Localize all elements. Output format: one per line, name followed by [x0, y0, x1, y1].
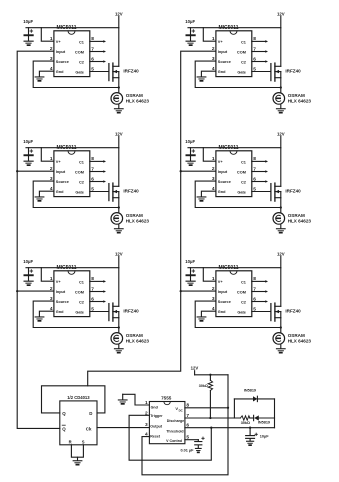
wire pin3 source loop (L2): [33, 181, 119, 207]
svg-text:COM: COM: [75, 51, 84, 55]
svg-text:12V: 12V: [115, 131, 123, 136]
ground lamp (R1): [276, 108, 286, 113]
wire pin3 source loop (R3): [195, 301, 281, 327]
svg-text:1: 1: [212, 36, 215, 42]
capacitor 0.01uF: [180, 437, 204, 452]
svg-text:Input: Input: [56, 50, 66, 54]
lamp OSRAM HLX 64623 (L3): [111, 333, 149, 345]
junction node source/pin3 (R1): [280, 86, 282, 88]
wire pin5 gate lead (R3): [252, 311, 271, 313]
ground pin4 (L2): [35, 196, 45, 201]
capacitor 10uF (timing): [245, 428, 269, 441]
svg-text:Q: Q: [62, 426, 66, 431]
wire Q to D feedback loop: [42, 386, 105, 413]
wire lamp to ground (R1): [280, 104, 282, 108]
wire pin4 to ground (R1): [201, 71, 216, 76]
wire pin1 drop from rail (L3): [41, 268, 54, 282]
wire lamp to ground (L3): [118, 344, 120, 348]
svg-text:Output: Output: [150, 425, 163, 429]
svg-text:12V: 12V: [277, 11, 285, 16]
wire pin1 drop from rail (R2): [203, 148, 216, 162]
svg-text:MIC5011: MIC5011: [56, 145, 76, 151]
ground lamp (L2): [114, 228, 124, 233]
wire diode2 to right riser: [259, 417, 275, 419]
svg-text:C1: C1: [79, 161, 85, 165]
ground pin4 (L1): [35, 76, 45, 81]
svg-text:C1: C1: [79, 281, 85, 285]
wire lamp to ground (R2): [280, 224, 282, 228]
wire pin5 gate lead (L1): [90, 71, 109, 73]
svg-text:COM: COM: [237, 291, 246, 295]
svg-text:V+: V+: [218, 160, 224, 164]
resistor 30k (Discharge to Threshold): [240, 416, 250, 425]
transistor IRFZ40 (L1): [109, 63, 139, 81]
junction node source/pin3 (R3): [280, 326, 282, 328]
svg-text:HLX 64623: HLX 64623: [126, 339, 150, 344]
svg-text:1: 1: [50, 156, 53, 162]
svg-text:12V: 12V: [277, 131, 285, 136]
wire source down to lamp (L3): [118, 318, 120, 333]
svg-text:COM: COM: [237, 51, 246, 55]
transistor IRFZ40 (L2): [109, 183, 139, 201]
svg-text:COM: COM: [237, 171, 246, 175]
wire pin3 source loop (L1): [33, 61, 119, 87]
wire pin1 drop from rail (R1): [203, 28, 216, 42]
junction node source/pin3 (L2): [118, 206, 120, 208]
svg-text:1: 1: [212, 156, 215, 162]
wire 7555 pin1 Gnd: [123, 394, 150, 405]
svg-text:Source: Source: [218, 300, 231, 304]
ground lamp (R2): [276, 228, 286, 233]
wire top diode branch right: [257, 398, 274, 400]
svg-text:12V: 12V: [115, 11, 123, 16]
IC MIC5011 (R1): [212, 25, 256, 76]
IC MIC5011 (R2): [212, 145, 256, 196]
wire source down to lamp (L1): [118, 78, 120, 93]
wires pins 8,7,6 stubs with arrows (R2): [252, 160, 268, 183]
wire right input bus (pins 2 of R1..R3 down to flip-flop feedback): [88, 51, 216, 386]
wire CK to 7555 output: [97, 427, 149, 429]
IC MIC5011 (L3): [50, 265, 94, 316]
wire drain to 12V rail (L1): [118, 28, 120, 67]
svg-text:R: R: [69, 440, 72, 445]
svg-text:V+: V+: [56, 280, 62, 284]
resistor 30k (VDD to Discharge): [199, 375, 213, 418]
svg-text:Gate: Gate: [237, 71, 246, 75]
svg-text:C2: C2: [241, 61, 246, 65]
wire L2 pin2 tap: [17, 170, 54, 172]
IC 1/2 CD4013 flip-flop: [60, 395, 97, 445]
svg-text:Reset: Reset: [150, 434, 161, 438]
wires pins 8,7,6 stubs with arrows (R1): [252, 40, 268, 63]
svg-text:C1: C1: [241, 281, 247, 285]
diode 1N5819 (bottom, pointing left): [254, 415, 270, 424]
wire L3 pin2 tap: [17, 290, 54, 292]
svg-text:MIC5011: MIC5011: [56, 265, 76, 271]
wires pins 8,7,6 stubs with arrows (L1): [90, 40, 106, 63]
transistor IRFZ40 (L3): [109, 303, 139, 321]
capacitor 10uF (R2): [185, 139, 196, 162]
svg-text:OSRAM: OSRAM: [126, 93, 143, 98]
power 12V label (L1): [115, 11, 123, 27]
svg-text:Gate: Gate: [237, 311, 246, 315]
ground 7555 pin1: [118, 399, 128, 404]
lamp OSRAM HLX 64623 (L2): [111, 213, 149, 225]
ground lamp (R3): [276, 348, 286, 353]
diode 1N5819 (top, pointing right): [244, 389, 258, 402]
IC 7555 timer: [145, 395, 189, 443]
svg-text:HLX 64623: HLX 64623: [126, 99, 150, 104]
ground timing cap: [246, 441, 254, 446]
lamp OSRAM HLX 64623 (R3): [273, 333, 311, 345]
lamp OSRAM HLX 64623 (R1): [273, 93, 311, 105]
IC MIC5011 (R3): [212, 265, 256, 316]
ground R,S of CD4013: [73, 460, 83, 465]
ground under capacitor (L1): [25, 43, 31, 46]
svg-text:10µF: 10µF: [260, 435, 269, 439]
power 12V label (R2): [277, 131, 285, 147]
svg-text:MIC5011: MIC5011: [218, 265, 238, 271]
svg-text:Source: Source: [56, 300, 69, 304]
svg-text:IRFZ40: IRFZ40: [123, 188, 139, 193]
svg-text:C2: C2: [79, 61, 84, 65]
svg-text:0.01 µF: 0.01 µF: [180, 449, 194, 453]
svg-text:Input: Input: [218, 290, 228, 294]
wire 7555 pin7 Discharge line: [185, 417, 241, 419]
ground under capacitor (L3): [25, 283, 31, 286]
svg-text:Source: Source: [56, 180, 69, 184]
capacitor 10uF (L1): [23, 19, 34, 42]
wire drain to 12V rail (L3): [118, 268, 120, 307]
power 12V label (R3): [277, 251, 285, 267]
wire pin1 drop from rail (R3): [203, 268, 216, 282]
wire resistor to diode2: [250, 417, 254, 419]
svg-text:Ck: Ck: [86, 426, 92, 431]
wire network right riser: [274, 399, 276, 428]
svg-text:OSRAM: OSRAM: [288, 213, 305, 218]
wires pins 8,7,6 stubs with arrows (R3): [252, 280, 268, 303]
ground lamp (L1): [114, 108, 124, 113]
wire drain to 12V rail (R3): [280, 268, 282, 307]
wire pin5 gate lead (L2): [90, 191, 109, 193]
wire pin5 gate lead (R2): [252, 191, 271, 193]
svg-text:Discharge: Discharge: [167, 419, 184, 423]
svg-text:Input: Input: [56, 290, 66, 294]
ground pin4 (R3): [197, 316, 207, 321]
svg-text:Input: Input: [56, 170, 66, 174]
svg-text:Gate: Gate: [237, 191, 246, 195]
svg-text:10µF: 10µF: [23, 19, 33, 24]
junction node source/pin3 (L3): [118, 326, 120, 328]
lamp OSRAM HLX 64623 (L1): [111, 93, 149, 105]
capacitor 10uF (L3): [23, 259, 34, 282]
svg-text:IRFZ40: IRFZ40: [285, 68, 301, 73]
svg-text:Input: Input: [218, 170, 228, 174]
junction node trigger/threshold: [210, 427, 212, 429]
svg-text:IRFZ40: IRFZ40: [123, 308, 139, 313]
svg-text:1/2 CD4013: 1/2 CD4013: [67, 395, 90, 400]
wire pin3 source loop (L3): [33, 301, 119, 327]
svg-text:MIC5011: MIC5011: [56, 25, 76, 31]
wire pin5 gate lead (R1): [252, 71, 271, 73]
svg-text:C2: C2: [79, 301, 84, 305]
wire pin1 drop from rail (L1): [41, 28, 54, 42]
svg-text:1: 1: [212, 276, 215, 282]
junction node right bus row2: [180, 170, 182, 172]
wire R3 pin2 tap: [181, 290, 216, 292]
transistor IRFZ40 (R1): [271, 63, 301, 81]
svg-text:C2: C2: [241, 181, 246, 185]
wire top diode branch left: [234, 398, 253, 400]
wire drain to 12V rail (L2): [118, 148, 120, 187]
svg-text:30kΩ: 30kΩ: [199, 384, 208, 388]
junction node 10uF cap tap: [249, 427, 251, 429]
svg-text:V+: V+: [56, 40, 62, 44]
svg-text:V+: V+: [218, 280, 224, 284]
ground pin4 (R1): [197, 76, 207, 81]
wire 12V top rail (R2): [188, 147, 281, 149]
wire 12V top rail (L3): [26, 267, 119, 269]
svg-text:12V: 12V: [191, 366, 199, 371]
wire pin4 to ground (L3): [39, 311, 54, 316]
junction node pin8/rail: [227, 407, 229, 409]
wire 12V top rail (L2): [26, 147, 119, 149]
svg-text:10µF: 10µF: [23, 139, 33, 144]
svg-text:IN5819: IN5819: [244, 389, 256, 393]
wire lamp to ground (L1): [118, 104, 120, 108]
svg-text:MIC5011: MIC5011: [218, 145, 238, 151]
svg-text:Gate: Gate: [75, 191, 84, 195]
wire 12V top rail (R1): [188, 27, 281, 29]
svg-text:12V: 12V: [115, 251, 123, 256]
svg-text:C2: C2: [241, 301, 246, 305]
svg-text:Gnd: Gnd: [218, 310, 226, 314]
junction node source/pin3 (L1): [118, 86, 120, 88]
svg-text:HLX 64623: HLX 64623: [288, 219, 312, 224]
svg-text:OSRAM: OSRAM: [288, 93, 305, 98]
svg-text:Source: Source: [218, 60, 231, 64]
wire 7555 pin6 Threshold line: [185, 427, 275, 429]
wire 12V top rail (R3): [188, 267, 281, 269]
svg-text:Gnd: Gnd: [56, 190, 64, 194]
svg-text:10µF: 10µF: [23, 259, 33, 264]
wire source down to lamp (L2): [118, 198, 120, 213]
svg-text:12V: 12V: [277, 251, 285, 256]
svg-text:V Control: V Control: [166, 439, 182, 443]
wire R,S to ground: [71, 445, 83, 457]
svg-text:IRFZ40: IRFZ40: [285, 308, 301, 313]
transistor IRFZ40 (R2): [271, 183, 301, 201]
capacitor 10uF (L2): [23, 139, 34, 162]
svg-text:Gnd: Gnd: [56, 310, 64, 314]
capacitor 10uF (R3): [185, 259, 196, 282]
wire pin5 gate lead (L3): [90, 311, 109, 313]
svg-text:D: D: [89, 411, 92, 416]
svg-text:Gnd: Gnd: [218, 70, 226, 74]
ground under capacitor (R3): [187, 283, 193, 286]
wire pin4 to ground (R3): [201, 311, 216, 316]
ground under capacitor (L2): [25, 163, 31, 166]
svg-text:V+: V+: [218, 40, 224, 44]
wire left input bus (pins 2 of L1..L3 to CD4013 Q-bar): [17, 51, 60, 428]
ground lamp (L3): [114, 348, 124, 353]
wire pin4 to ground (L2): [39, 191, 54, 196]
svg-text:10µF: 10µF: [185, 139, 195, 144]
transistor IRFZ40 (R3): [271, 303, 301, 321]
junction node resistor bottom on pin7 line: [209, 417, 211, 419]
wire 7555 pin5 V-control: [185, 439, 198, 441]
wire drain to 12V rail (R2): [280, 148, 282, 187]
svg-text:1: 1: [50, 276, 53, 282]
wire pin4 to ground (R2): [201, 191, 216, 196]
IC MIC5011 (L2): [50, 145, 94, 196]
svg-text:10µF: 10µF: [185, 19, 195, 24]
junction node right bus row3: [180, 290, 182, 292]
ground under capacitor (R2): [187, 163, 193, 166]
wire 7555 pin4 Reset to 12V: [142, 375, 228, 475]
wire pin3 source loop (R1): [195, 61, 281, 87]
wire pin4 to ground (L1): [39, 71, 54, 76]
svg-text:Q: Q: [62, 411, 66, 416]
wire drain to 12V rail (R1): [280, 28, 282, 67]
svg-text:Input: Input: [218, 50, 228, 54]
svg-text:HLX 64623: HLX 64623: [288, 99, 312, 104]
wire R2 pin2 tap: [181, 170, 216, 172]
svg-text:Threshold: Threshold: [166, 429, 183, 433]
wire lamp to ground (L2): [118, 224, 120, 228]
svg-text:COM: COM: [75, 291, 84, 295]
svg-text:C2: C2: [79, 181, 84, 185]
wire pin1 drop from rail (L2): [41, 148, 54, 162]
svg-text:C1: C1: [241, 41, 247, 45]
wire source down to lamp (R3): [280, 318, 282, 333]
ground pin4 (L3): [35, 316, 45, 321]
power 12V label (R1): [277, 11, 285, 27]
wire lamp to ground (R3): [280, 344, 282, 348]
junction node source/pin3 (R2): [280, 206, 282, 208]
svg-text:C1: C1: [241, 161, 247, 165]
svg-text:Gnd: Gnd: [151, 405, 158, 409]
ground 0.01uF cap: [195, 448, 202, 453]
wire 7555 pin2 Trigger loop: [129, 415, 211, 460]
svg-text:Gnd: Gnd: [56, 70, 64, 74]
svg-text:OSRAM: OSRAM: [126, 333, 143, 338]
IC MIC5011 (L1): [50, 25, 94, 76]
wire 12V top rail (L1): [26, 27, 119, 29]
svg-text:30kΩ: 30kΩ: [241, 421, 250, 425]
capacitor 10uF (R1): [185, 19, 196, 42]
svg-text:Trigger: Trigger: [150, 414, 163, 418]
wire 12V feed: [195, 374, 228, 376]
svg-text:OSRAM: OSRAM: [288, 333, 305, 338]
wires pins 8,7,6 stubs with arrows (L3): [90, 280, 106, 303]
power 12V label (7555): [191, 366, 199, 375]
junction node resistor top: [209, 374, 211, 376]
power 12V label (L2): [115, 131, 123, 147]
wire 7555 pin8 VDD to 12V rail: [185, 407, 228, 409]
svg-text:HLX 64623: HLX 64623: [288, 339, 312, 344]
junction node left bus row3: [16, 290, 18, 292]
svg-text:Source: Source: [218, 180, 231, 184]
svg-text:Gnd: Gnd: [218, 190, 226, 194]
svg-text:10µF: 10µF: [185, 259, 195, 264]
wire pin3 source loop (R2): [195, 181, 281, 207]
svg-text:S: S: [82, 440, 85, 445]
svg-text:Source: Source: [56, 60, 69, 64]
svg-text:OSRAM: OSRAM: [126, 213, 143, 218]
svg-text:C1: C1: [79, 41, 85, 45]
power 12V label (L3): [115, 251, 123, 267]
svg-text:IRFZ40: IRFZ40: [285, 188, 301, 193]
svg-text:7555: 7555: [161, 395, 172, 400]
svg-text:MIC5011: MIC5011: [218, 25, 238, 31]
svg-text:HLX 64623: HLX 64623: [126, 219, 150, 224]
ground under capacitor (R1): [187, 43, 193, 46]
lamp OSRAM HLX 64623 (R2): [273, 213, 311, 225]
svg-text:Gate: Gate: [75, 71, 84, 75]
wire source down to lamp (R1): [280, 78, 282, 93]
junction node left bus row2: [16, 170, 18, 172]
svg-text:1: 1: [50, 36, 53, 42]
svg-text:Gate: Gate: [75, 311, 84, 315]
svg-text:COM: COM: [75, 171, 84, 175]
svg-text:3: 3: [145, 422, 148, 428]
svg-text:IRFZ40: IRFZ40: [123, 68, 139, 73]
svg-text:IN5819: IN5819: [258, 421, 270, 425]
wires pins 8,7,6 stubs with arrows (L2): [90, 160, 106, 183]
ground pin4 (R2): [197, 196, 207, 201]
diode network left riser: [233, 399, 235, 418]
svg-text:V+: V+: [56, 160, 62, 164]
wire source down to lamp (R2): [280, 198, 282, 213]
